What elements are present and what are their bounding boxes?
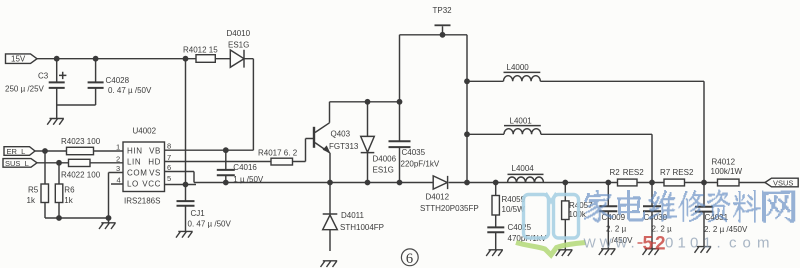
svg-text:220pF/1kV: 220pF/1kV bbox=[401, 159, 440, 168]
svg-text:2. 2 µ: 2. 2 µ bbox=[606, 224, 627, 233]
svg-text:W: W bbox=[600, 236, 613, 251]
svg-text:1k: 1k bbox=[64, 196, 73, 205]
svg-text:D4012: D4012 bbox=[426, 192, 450, 201]
svg-text:1: 1 bbox=[116, 143, 120, 152]
svg-text:C4035: C4035 bbox=[402, 148, 426, 157]
svg-text:C4025: C4025 bbox=[508, 223, 532, 232]
svg-text:L4001: L4001 bbox=[510, 116, 533, 125]
svg-text:D4006: D4006 bbox=[373, 154, 397, 163]
svg-text:0: 0 bbox=[665, 235, 673, 252]
svg-text:STH1004FP: STH1004FP bbox=[340, 223, 384, 232]
svg-text:L4000: L4000 bbox=[507, 63, 530, 72]
svg-text:R4012 15: R4012 15 bbox=[183, 46, 218, 55]
svg-text:m: m bbox=[757, 235, 770, 252]
svg-text:HIN: HIN bbox=[127, 146, 143, 155]
svg-text:C3: C3 bbox=[38, 71, 49, 80]
svg-text:STTH20P035FP: STTH20P035FP bbox=[420, 204, 479, 213]
svg-text:250 µ /25V: 250 µ /25V bbox=[5, 84, 45, 93]
svg-text:R4022 100: R4022 100 bbox=[61, 170, 101, 179]
svg-text:10/5W: 10/5W bbox=[502, 205, 526, 214]
svg-text:0: 0 bbox=[690, 235, 698, 252]
svg-text:.: . bbox=[631, 235, 635, 252]
svg-text:ES1G: ES1G bbox=[228, 40, 249, 49]
svg-text:0. 47 µ /50V: 0. 47 µ /50V bbox=[108, 86, 152, 95]
svg-text:L4004: L4004 bbox=[512, 164, 535, 173]
svg-text:LIN: LIN bbox=[127, 158, 141, 167]
svg-text:R4012: R4012 bbox=[712, 157, 736, 166]
svg-text:COM: COM bbox=[127, 168, 147, 177]
svg-text:8: 8 bbox=[167, 141, 171, 150]
svg-text:ER_L: ER_L bbox=[7, 147, 26, 156]
svg-text:RES2: RES2 bbox=[623, 168, 644, 177]
svg-text:ES1G: ES1G bbox=[373, 165, 394, 174]
svg-text:U4002: U4002 bbox=[133, 126, 157, 135]
svg-text:VCC: VCC bbox=[142, 179, 161, 188]
svg-text:R2: R2 bbox=[610, 168, 621, 177]
svg-text:W: W bbox=[615, 236, 628, 251]
svg-text:o: o bbox=[743, 235, 751, 252]
svg-text:VB: VB bbox=[149, 146, 161, 155]
svg-text:R7: R7 bbox=[660, 168, 671, 177]
svg-text:1: 1 bbox=[703, 235, 711, 252]
svg-text:RES2: RES2 bbox=[673, 168, 694, 177]
svg-text:HD: HD bbox=[148, 158, 161, 167]
svg-text:CJ1: CJ1 bbox=[191, 209, 206, 218]
svg-text:7: 7 bbox=[167, 153, 171, 162]
svg-text:100k/1W: 100k/1W bbox=[711, 167, 743, 176]
svg-text:2: 2 bbox=[116, 154, 120, 163]
svg-text:Q403: Q403 bbox=[331, 129, 351, 138]
svg-text:SUS_L: SUS_L bbox=[5, 159, 29, 168]
svg-text:1: 1 bbox=[678, 235, 686, 252]
svg-text:4: 4 bbox=[117, 176, 121, 185]
svg-text:.: . bbox=[717, 235, 721, 252]
svg-text:R4017 6. 2: R4017 6. 2 bbox=[258, 148, 298, 157]
svg-text:W: W bbox=[584, 236, 597, 251]
svg-text:D4011: D4011 bbox=[341, 211, 365, 220]
svg-text:TP32: TP32 bbox=[433, 6, 453, 15]
svg-text:6: 6 bbox=[167, 163, 171, 172]
svg-text:VSUS: VSUS bbox=[773, 179, 793, 188]
svg-text:5: 5 bbox=[643, 234, 654, 255]
svg-text:5: 5 bbox=[167, 174, 171, 183]
svg-text:R4023 100: R4023 100 bbox=[61, 137, 101, 146]
svg-text:2. 2 µ /450V: 2. 2 µ /450V bbox=[704, 225, 748, 234]
svg-text:C4016: C4016 bbox=[233, 163, 257, 172]
svg-text:R5: R5 bbox=[28, 186, 39, 195]
svg-text:3: 3 bbox=[116, 164, 120, 173]
svg-text:D4010: D4010 bbox=[227, 29, 251, 38]
svg-text:c: c bbox=[729, 235, 737, 252]
svg-text:1k: 1k bbox=[27, 196, 36, 205]
svg-text:15V: 15V bbox=[11, 55, 26, 64]
svg-text:2. 2 µ: 2. 2 µ bbox=[652, 224, 673, 233]
svg-text:2: 2 bbox=[655, 234, 666, 255]
svg-text:0. 47 µ /50V: 0. 47 µ /50V bbox=[188, 219, 232, 228]
svg-text:1 µ /50V: 1 µ /50V bbox=[233, 175, 264, 184]
svg-text:C4028: C4028 bbox=[106, 76, 130, 85]
svg-text:FGT313: FGT313 bbox=[329, 142, 359, 151]
svg-text:LO: LO bbox=[127, 179, 139, 188]
svg-text:IRS2186S: IRS2186S bbox=[124, 197, 160, 206]
svg-text:R6: R6 bbox=[64, 186, 75, 195]
svg-text:6: 6 bbox=[406, 251, 413, 267]
svg-text:VS: VS bbox=[149, 168, 161, 177]
